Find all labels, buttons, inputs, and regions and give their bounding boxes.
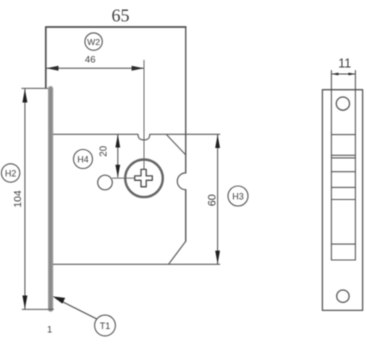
side view lock case bottom edge: [331, 259, 355, 261]
side view division line 3: [331, 171, 355, 173]
case right edge: [185, 27, 187, 241]
extension line cylinder center: [143, 60, 145, 169]
side view lock case right edge / extension: [354, 71, 356, 260]
dimension 46 line with arrows: [47, 67, 144, 69]
lock case top plate outline: [46, 27, 186, 88]
side view dimension 11 line: [331, 73, 355, 75]
body bottom edge, extends right as extension line: [53, 263, 219, 265]
balloon W2: [85, 33, 102, 50]
side view division line 2 (double): [331, 154, 355, 156]
balloon H3: [228, 186, 248, 206]
side view division line 4: [331, 186, 355, 188]
svg-text:H3: H3: [232, 192, 244, 202]
balloon H2: [1, 164, 19, 182]
svg-text:46: 46: [85, 55, 96, 66]
faceplate edge (gray bar): [48, 89, 53, 310]
svg-text:20: 20: [99, 145, 110, 156]
lock body top edge with spindle notch, extends right as extension line: [53, 134, 219, 140]
phillips spindle cross: [135, 169, 153, 186]
body bottom right bevel: [169, 241, 186, 264]
side view lock case left edge / extension: [330, 71, 332, 260]
svg-text:11: 11: [338, 57, 351, 71]
extension line top of 104: [22, 87, 48, 89]
dimension 20 line with arrows: [117, 135, 119, 177]
svg-text:104: 104: [13, 190, 24, 208]
svg-text:H4: H4: [77, 154, 88, 164]
dimension 104 line with arrows: [24, 89, 26, 309]
svg-text:60: 60: [206, 194, 218, 206]
dimension 60 line with arrows: [217, 135, 219, 264]
side view division line 1: [331, 134, 355, 136]
svg-text:65: 65: [112, 6, 130, 26]
body top right bevel: [166, 135, 185, 155]
side view top screw hole: [336, 97, 349, 110]
svg-text:T1: T1: [100, 321, 111, 331]
leader arrow T1 to faceplate: [57, 299, 97, 319]
side view division line 6: [331, 243, 355, 245]
balloon H4: [74, 150, 93, 169]
side view division line 5: [331, 199, 355, 201]
svg-text:1: 1: [47, 325, 52, 335]
small fixing hole: [98, 175, 113, 190]
svg-text:H2: H2: [5, 168, 16, 178]
balloon T1: [95, 315, 116, 336]
side view faceplate outer rectangle: [322, 90, 362, 311]
cylinder outer ring: [125, 160, 163, 198]
body right edge notch (semicircle): [177, 173, 185, 190]
svg-text:W2: W2: [87, 37, 100, 47]
cylinder horizontal centerline: [112, 177, 135, 179]
extension line bottom of 104 / faceplate bottom: [22, 308, 53, 310]
side view bottom screw hole: [337, 290, 349, 302]
